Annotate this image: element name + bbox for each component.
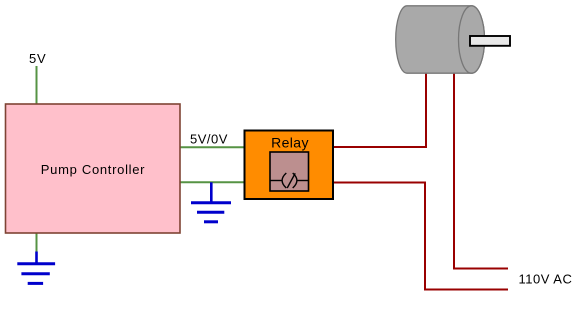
svg-text:5V: 5V — [29, 51, 47, 66]
svg-text:110V AC: 110V AC — [519, 272, 573, 287]
svg-text:Pump Controller: Pump Controller — [41, 162, 145, 177]
svg-text:5V/0V: 5V/0V — [190, 132, 228, 147]
svg-text:Relay: Relay — [271, 135, 309, 151]
